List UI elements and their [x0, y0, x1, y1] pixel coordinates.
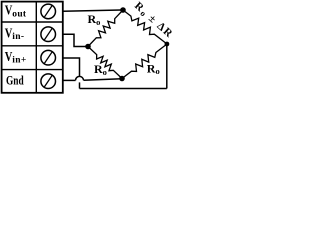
svg-text:in-: in-: [12, 32, 24, 42]
resistor Ro top-left: [88, 10, 123, 47]
wire Gnd from terminal: [63, 79, 76, 81]
svg-text:Ro: Ro: [147, 61, 160, 76]
terminal block row divider 2: [2, 45, 63, 47]
node right: [165, 42, 170, 47]
resistor Ro bottom-left: [88, 47, 122, 79]
wire Gnd to bottom node: [84, 79, 123, 81]
wire right rail to right node: [166, 44, 168, 89]
terminal block row divider 3: [2, 69, 63, 71]
wire bottom rail: [80, 88, 167, 90]
terminal block row divider 1: [2, 21, 63, 23]
wire Vin- to left node: [63, 34, 88, 46]
wire Vin+ stub below hop: [79, 82, 81, 88]
wire hop over Vin+ wire: [75, 76, 83, 80]
wire Vout to top node: [63, 10, 121, 11]
svg-text:Ro: Ro: [94, 62, 107, 77]
terminal circle row1: [41, 4, 56, 19]
svg-text:Gnd: Gnd: [6, 74, 24, 88]
svg-text:out: out: [12, 9, 27, 19]
terminal block column divider: [35, 2, 37, 93]
terminal circle row2: [41, 27, 56, 42]
terminal circle row3: [41, 50, 56, 65]
wire Vin+ to crossover: [63, 58, 80, 76]
svg-text:Ro: Ro: [88, 12, 101, 27]
resistor Ro bottom-right: [122, 44, 167, 79]
terminal block outline: [2, 2, 63, 93]
terminal circle row4: [41, 74, 56, 89]
node left: [85, 44, 91, 50]
resistor Ro+dR top-right: [123, 10, 167, 44]
svg-text:in+: in+: [12, 56, 26, 66]
node top: [120, 7, 126, 13]
node bottom: [119, 76, 125, 82]
